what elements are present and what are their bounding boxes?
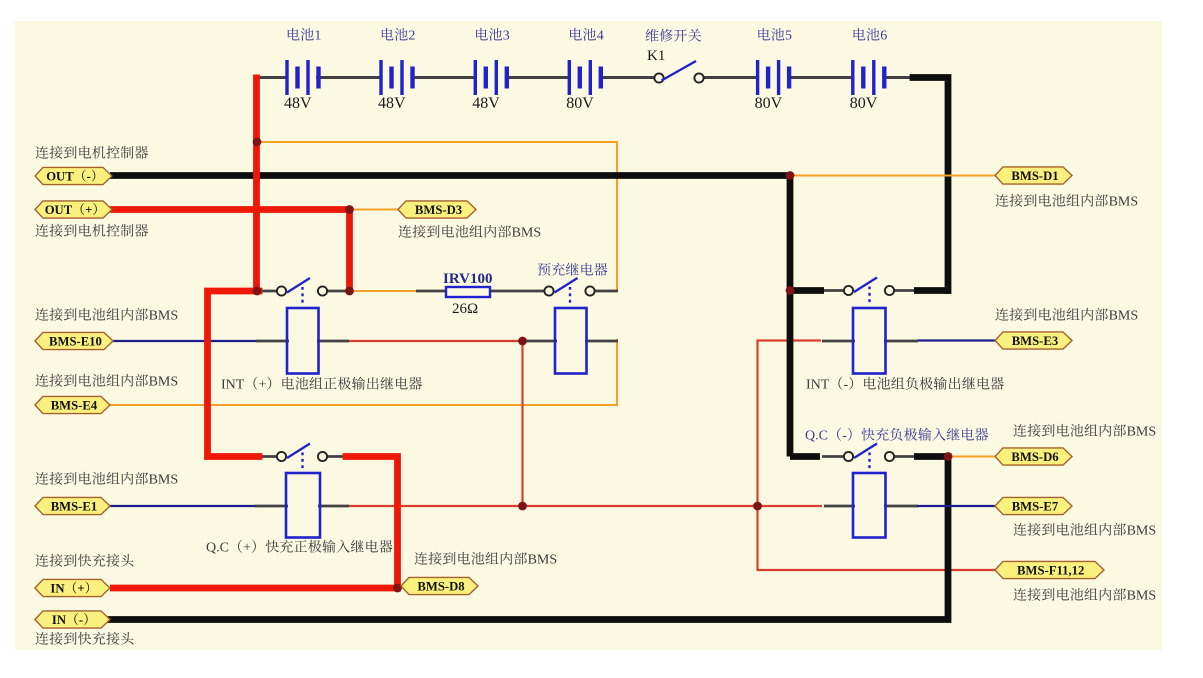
port BMS-E1 [35,497,110,514]
svg-text:IN: IN [50,581,64,595]
wire orange node A to precharge switch [257,142,617,291]
wire INT- switch right lead [892,289,916,292]
label INT(-) relay [806,377,1004,393]
svg-text:BMS: BMS [1109,309,1139,324]
svg-text:1: 1 [314,29,321,44]
wire INT+ switch right lead [326,290,351,293]
svg-text:+: + [259,378,267,393]
wire BMS-E7 lead [917,505,996,507]
svg-text:BMS: BMS [1127,589,1157,604]
port BMS-E7 [995,497,1072,514]
note 连接到电池组内部BMS (D8) [414,552,557,568]
label QC(+) relay [206,540,392,556]
svg-text:Q.C: Q.C [206,541,229,556]
port OUT (+) [35,201,112,218]
label INT(+) relay [221,377,422,393]
wire B3-B4 [505,76,570,79]
svg-text:BMS-E7: BMS-E7 [1012,499,1059,513]
svg-text:80V: 80V [850,95,878,112]
label 电池6 [854,28,888,44]
junction vertical B bottom [345,287,354,296]
wire B5-B6 [788,76,854,79]
wire QC- switch left stub [790,453,820,460]
port IN (-) [35,611,110,628]
wire red vertical B [346,210,353,292]
junction node A / orange tap [253,138,262,147]
junction INT- switch / vertical 790 [786,286,795,295]
wire red QC+ right to IN(+) junction [346,457,398,589]
wire BMS-E3 lead [917,339,996,341]
svg-text:+: + [243,541,251,556]
svg-text:48V: 48V [472,95,500,112]
wire QC+ coil left lead [255,505,288,508]
note 连接到电池组内部BMS (E7) [1013,523,1156,539]
svg-text:IN: IN [52,613,66,627]
port BMS-F11,12 [995,561,1104,578]
svg-text:-: - [87,169,91,183]
svg-text:OUT: OUT [45,203,73,217]
relay coil INT(-) [853,308,886,374]
wire red QC coil row [348,505,822,507]
svg-text:80V: 80V [755,95,783,112]
svg-text:5: 5 [785,29,792,44]
svg-text:48V: 48V [284,95,312,112]
relay coil precharge [555,308,587,374]
wire red INT+ coil to junction [348,340,524,342]
note 连接到电池组内部BMS (D1) [995,194,1138,210]
svg-text:BMS-E3: BMS-E3 [1012,334,1059,348]
svg-text:48V: 48V [378,95,406,112]
battery B2 [379,60,414,95]
wire resistor left lead [416,290,446,293]
wire resistor to precharge switch [490,290,546,293]
svg-text:4: 4 [597,29,604,44]
label QC(-) relay [805,428,988,444]
svg-text:Q.C: Q.C [805,429,828,444]
wire INT+ coil left lead [256,340,289,343]
battery B1 [285,60,320,95]
switch INT(-) contact [844,278,894,305]
wire top bus segment left of B1 [256,76,288,79]
wire OUT(-) bus [110,172,790,179]
wire QC- switch right stub [914,453,948,460]
label 预充继电器 [538,263,608,276]
switch QC(-) contact [844,444,894,470]
note 连接到电池组内部BMS (D3) [398,225,541,241]
wire thick black vertical 790 [787,176,794,457]
port IN (+) [35,579,110,596]
battery B3 [474,60,509,95]
junction INT+ coil red / vertical 522 [518,337,527,346]
svg-text:-: - [842,429,847,444]
wire QC- switch right lead [892,455,916,458]
battery B6 [851,60,886,95]
switch INT(+) contact [277,278,327,305]
svg-text:+: + [77,581,84,595]
junction OUT(+) / vertical B [345,205,354,214]
wire red elbow C INT+ to QC+ [208,291,260,457]
wire B4-K1 [600,76,655,79]
wire OUT(+) bus [110,206,352,213]
port BMS-D1 [995,167,1072,184]
wire INT- switch left stub [787,287,824,294]
svg-text:-: - [844,378,849,393]
junction QC- switch / BMS-D6 [944,452,953,461]
wire precharge coil right lead [585,340,618,343]
note 连接到电机控制器 (OUT-) [35,146,148,159]
relay coil INT(+) [287,308,319,374]
wire QC+ coil right lead [318,505,349,508]
wire orange to BMS-D6 [948,455,996,457]
svg-text:BMS-E4: BMS-E4 [51,398,98,412]
wire orange BMS-E4 to precharge coil [110,340,617,405]
switch K1 维修开关 [654,61,703,83]
svg-text:BMS: BMS [1109,195,1139,210]
svg-text:BMS: BMS [149,309,179,324]
junction IN(+) / BMS-D8 [393,584,402,593]
wire QC- switch left lead [822,455,846,458]
wire QC- coil left lead [824,505,855,508]
relay coil QC(+) [286,473,320,538]
wire red vertical 522 [521,341,523,506]
port OUT (-) [35,167,112,184]
junction node A bottom [253,287,262,296]
svg-text:26Ω: 26Ω [452,301,478,317]
svg-text:INT: INT [806,378,830,393]
svg-text:OUT: OUT [46,169,74,183]
wire IN(+) bus [110,585,400,592]
junction QC row / vertical 522 [518,502,527,511]
wire INT+ coil right lead [317,340,349,343]
svg-text:2: 2 [408,29,415,44]
label 电池2 [382,28,416,44]
port BMS-D6 [995,448,1072,465]
port BMS-D3 [398,201,476,218]
svg-text:BMS-D6: BMS-D6 [1011,450,1058,464]
svg-text:BMS: BMS [528,553,558,568]
label 电池1 [288,28,322,44]
wire K1-B5 [703,76,758,79]
svg-text:INT: INT [221,378,245,393]
junction QC row / vertical 757 [753,502,762,511]
label 维修开关 [646,29,701,42]
wire precharge coil left lead [523,340,557,343]
label 电池4 [570,28,604,44]
svg-text:BMS-D3: BMS-D3 [415,203,462,217]
svg-text:BMS-D1: BMS-D1 [1011,169,1058,183]
wire thick battery end down to INT- switch [913,78,948,291]
note 连接到电池组内部BMS (E3) [995,308,1138,324]
wire B6 to thick corner [883,76,920,79]
switch QC(+) contact [277,444,327,470]
svg-text:80V: 80V [566,95,594,112]
relay coil QC(-) [853,473,886,538]
svg-text:BMS-E10: BMS-E10 [49,334,102,348]
svg-text:BMS: BMS [149,375,179,390]
wire BMS-E1 lead [109,505,257,507]
resistor IRV100 26ohm [443,271,492,317]
wire B1-B2 [316,76,382,79]
note 连接到电池组内部BMS (F11) [1013,588,1156,604]
wire red vertical 757 to INT- coil and BMS-F11 [758,341,997,571]
wire INT- coil left lead [822,340,855,343]
wire QC+ switch left lead [258,455,278,458]
note 连接到电池组内部BMS (E10) [35,308,178,324]
battery B4 [568,60,603,95]
wire B2-B3 [411,76,476,79]
wire BMS-E10 lead [109,340,258,342]
svg-text:BMS-D8: BMS-D8 [417,579,464,593]
svg-text:BMS: BMS [149,473,179,488]
port BMS-E3 [995,332,1072,349]
port BMS-D8 [401,577,478,594]
svg-text:-: - [79,613,83,627]
note 连接到电池组内部BMS (E4) [35,374,178,390]
port BMS-E10 [35,332,113,349]
battery B5 [756,60,791,95]
wire QC+ switch right lead [326,455,347,458]
wire INT- switch left lead [822,289,846,292]
note 连接到电机控制器 (OUT+) [35,224,148,237]
note 连接到快充接头 (IN+) [35,554,133,567]
wire INT- switch right stub [914,287,951,294]
junction OUT(-) / BMS-D1 [786,171,795,180]
wire red vertical node A [253,75,260,292]
svg-text:6: 6 [880,29,887,44]
wire thick black QC- down to IN(-) [110,457,948,620]
label 电池5 [758,28,792,44]
wire precharge switch right lead [594,290,618,293]
svg-text:BMS: BMS [1127,524,1157,539]
note 连接到电池组内部BMS (D6) [1013,424,1156,440]
port BMS-E4 [35,396,110,413]
note 连接到电池组内部BMS (E1) [35,472,178,488]
svg-text:+: + [85,203,92,217]
svg-text:BMS: BMS [1127,425,1157,440]
svg-text:BMS-F11,12: BMS-F11,12 [1017,563,1084,577]
wire orange junction to resistor lead [350,290,418,292]
note 连接到快充接头 (IN-) [35,632,133,645]
wire orange to BMS-D3 [351,208,399,210]
wire INT+ switch left lead [257,290,278,293]
svg-text:BMS-E1: BMS-E1 [51,499,98,513]
svg-text:3: 3 [503,29,510,44]
wire QC- coil right lead [884,505,918,508]
svg-text:IRV100: IRV100 [443,271,492,287]
wire orange to BMS-D1 [790,174,996,176]
wire INT- coil right lead [884,340,918,343]
svg-text:K1: K1 [647,48,665,64]
switch precharge contact [544,278,594,305]
svg-text:BMS: BMS [512,226,542,241]
label 电池3 [476,28,510,44]
